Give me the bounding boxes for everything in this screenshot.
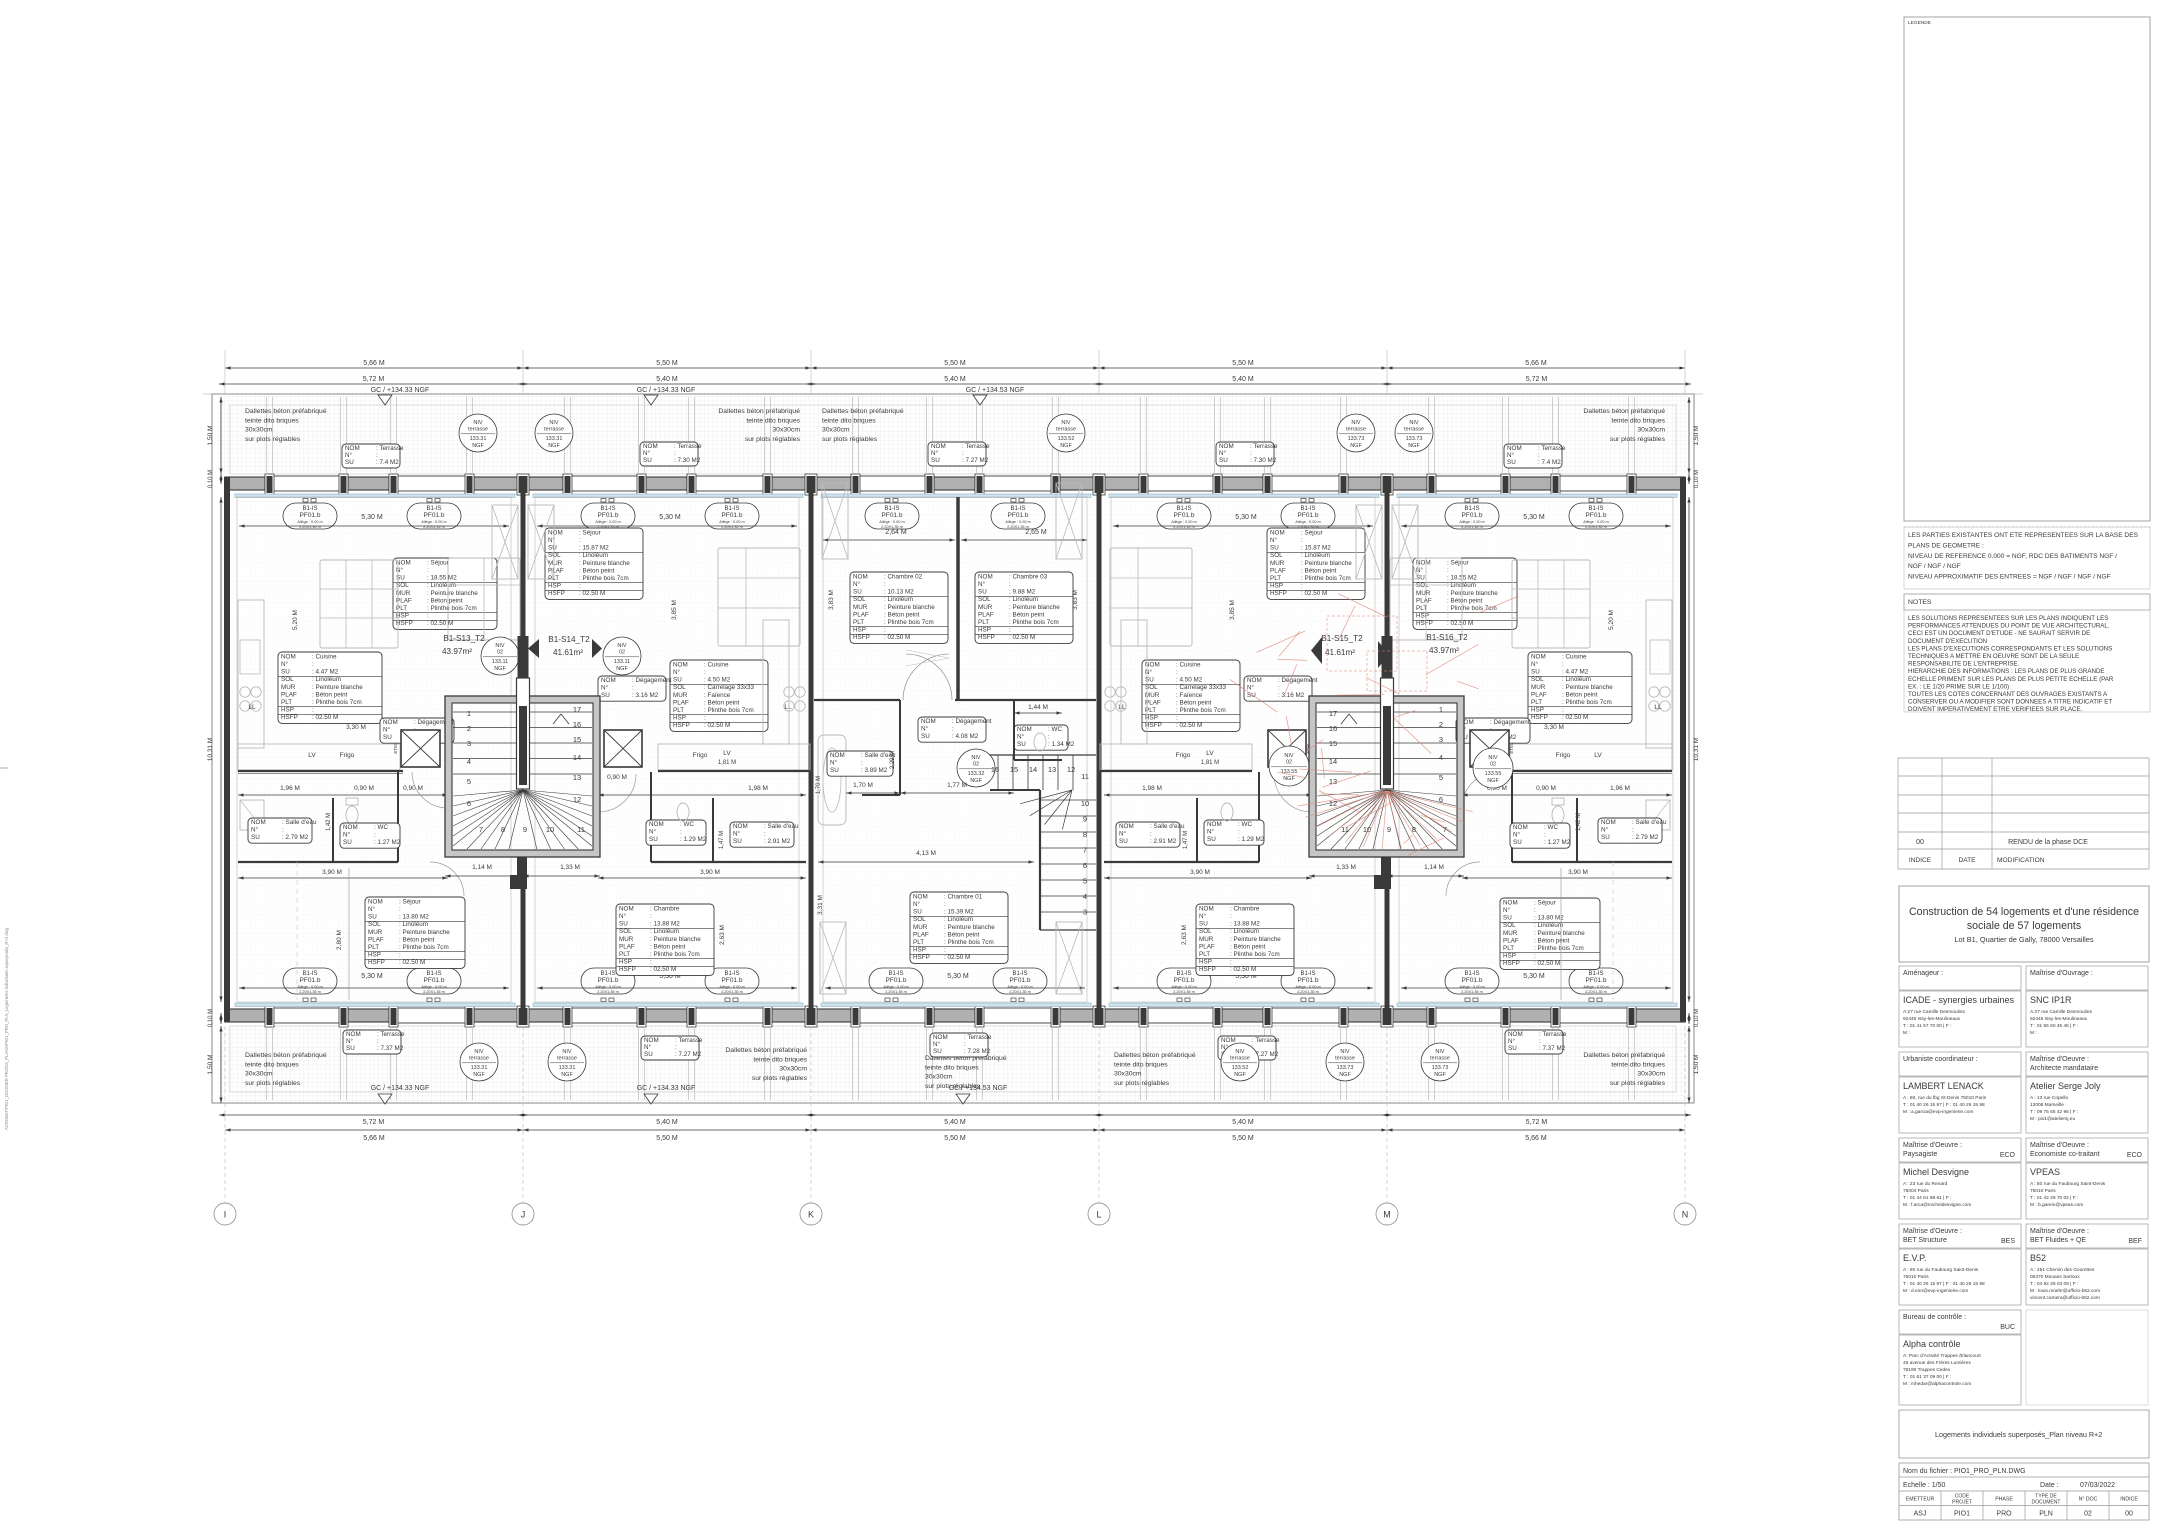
svg-text:NOM: NOM — [383, 719, 398, 726]
svg-text::: : — [1534, 907, 1536, 914]
svg-text:T : 01 41 57 70 00 | F :: T : 01 41 57 70 00 | F : — [1903, 1023, 1951, 1029]
svg-text:M : d.eon@evp-ingenierie.com: M : d.eon@evp-ingenierie.com — [1903, 1288, 1968, 1294]
svg-text:PLN: PLN — [2039, 1511, 2053, 1518]
svg-text:1,50 M: 1,50 M — [1693, 1055, 1700, 1075]
svg-text:Allège : 0.00 m: Allège : 0.00 m — [1459, 520, 1484, 524]
svg-text:PLAF: PLAF — [619, 943, 635, 950]
svg-text:M :: M : — [1903, 1030, 1910, 1036]
svg-text:SOL: SOL — [368, 921, 381, 928]
svg-text:HSFP: HSFP — [1416, 620, 1433, 627]
svg-text:T : 04 92 28 03 09 | F :: T : 04 92 28 03 09 | F : — [2030, 1281, 2078, 1287]
svg-text:MUR: MUR — [853, 604, 868, 611]
svg-text:: Plinthe bois 7cm: : Plinthe bois 7cm — [1230, 951, 1280, 958]
svg-text:5,30 M: 5,30 M — [947, 973, 969, 980]
svg-text:MUR: MUR — [978, 604, 993, 611]
svg-text:: Béton peint: : Béton peint — [1009, 611, 1045, 618]
svg-text:: Béton peint: : Béton peint — [650, 943, 686, 950]
svg-text:1,14 M: 1,14 M — [1424, 864, 1444, 871]
svg-text:: Terrasse: : Terrasse — [1250, 443, 1278, 450]
svg-text:: 02.50 M: : 02.50 M — [399, 959, 425, 966]
svg-text:3: 3 — [1439, 735, 1443, 744]
svg-text:B1-S13_T2: B1-S13_T2 — [443, 634, 485, 643]
svg-text::: : — [952, 726, 954, 733]
svg-text:3,30 M: 3,30 M — [1544, 724, 1564, 731]
svg-text:5,40 M: 5,40 M — [944, 376, 966, 383]
svg-text:NIV: NIV — [474, 1049, 484, 1055]
svg-text:NGF / NGF / NGF: NGF / NGF / NGF — [1908, 563, 1961, 570]
svg-text:: Chambre 02: : Chambre 02 — [884, 573, 923, 580]
svg-text:SU: SU — [913, 909, 922, 916]
svg-text:: 7.37 M2: : 7.37 M2 — [377, 1045, 404, 1052]
svg-text:10: 10 — [1081, 799, 1089, 808]
svg-text::: : — [944, 947, 946, 954]
svg-text:T : 01 44 61 98 61 | F :: T : 01 44 61 98 61 | F : — [1903, 1195, 1951, 1201]
svg-text:Date :: Date : — [2040, 1482, 2059, 1489]
svg-text:NOM: NOM — [1503, 899, 1518, 906]
svg-text:Maîtrise d'Ouvrage :: Maîtrise d'Ouvrage : — [2030, 970, 2093, 977]
svg-text:92445 Issy-les-Moulineaux: 92445 Issy-les-Moulineaux — [1903, 1016, 1961, 1022]
svg-text:MUR: MUR — [913, 924, 928, 931]
svg-text:SU: SU — [346, 1045, 355, 1052]
svg-text:HSFP: HSFP — [619, 966, 636, 973]
svg-text::: : — [1230, 959, 1232, 966]
svg-text::: : — [312, 661, 314, 668]
svg-text:B1-S16_T2: B1-S16_T2 — [1426, 633, 1468, 642]
svg-text:: 15.39 M2: : 15.39 M2 — [944, 909, 974, 916]
svg-text:: Dégagement: : Dégagement — [1490, 719, 1530, 726]
svg-text:: WC: : WC — [1048, 726, 1062, 733]
svg-text:1,70 M: 1,70 M — [816, 776, 822, 794]
svg-text:ASJ: ASJ — [1914, 1511, 1927, 1518]
svg-text:5,20 M: 5,20 M — [292, 610, 299, 630]
svg-text:PLT: PLT — [913, 939, 924, 946]
svg-text:: Carrelage 33x33: : Carrelage 33x33 — [704, 684, 755, 691]
svg-text:SOL: SOL — [1503, 922, 1516, 929]
svg-text:SOL: SOL — [1416, 582, 1429, 589]
svg-text:: Plinthe bois 7cm: : Plinthe bois 7cm — [399, 944, 449, 951]
svg-text:5,40 M: 5,40 M — [656, 1119, 678, 1126]
svg-text:Urbaniste coordinateur :: Urbaniste coordinateur : — [1903, 1056, 1978, 1063]
svg-text:5,30 M: 5,30 M — [1235, 514, 1257, 521]
svg-text:2,20X1,35 m: 2,20X1,35 m — [299, 990, 321, 994]
svg-text:N°: N° — [251, 826, 259, 834]
svg-text:PLT: PLT — [368, 944, 379, 951]
svg-text:HSFP: HSFP — [1531, 714, 1548, 721]
svg-text:3,90 M: 3,90 M — [700, 869, 720, 876]
svg-text:HSFP: HSFP — [978, 634, 995, 641]
svg-text:SU: SU — [1531, 669, 1540, 676]
svg-text:: Linoléum: : Linoléum — [427, 582, 456, 589]
svg-text:terrasse: terrasse — [1230, 1056, 1250, 1062]
svg-text:HSFP: HSFP — [396, 620, 413, 627]
svg-text:PLAF: PLAF — [853, 611, 869, 618]
svg-text:PLT: PLT — [673, 707, 684, 714]
svg-text:PHASE: PHASE — [1995, 1497, 2013, 1503]
svg-text:15: 15 — [1010, 765, 1018, 774]
svg-text:1,96 M: 1,96 M — [1610, 785, 1630, 792]
svg-text:5: 5 — [467, 777, 471, 786]
svg-text::: : — [1538, 452, 1540, 459]
svg-text:N°: N° — [649, 828, 657, 836]
svg-text:3,31 M: 3,31 M — [817, 895, 824, 915]
svg-text:MUR: MUR — [1416, 590, 1431, 597]
svg-text:NOM: NOM — [1199, 905, 1214, 912]
svg-text:SU: SU — [1247, 692, 1256, 699]
svg-text:J: J — [521, 1210, 526, 1220]
svg-text:A:27 rue Camille Desmoulins: A:27 rue Camille Desmoulins — [2030, 1009, 2092, 1015]
svg-text:: 02.50 M: : 02.50 M — [427, 620, 453, 627]
svg-text:LV: LV — [723, 750, 731, 757]
svg-text:: Terrasse: : Terrasse — [377, 1031, 405, 1038]
svg-text:B1-S15_T2: B1-S15_T2 — [1321, 634, 1363, 643]
svg-text:NOTES: NOTES — [1908, 599, 1932, 606]
svg-text:133.52: 133.52 — [1232, 1065, 1249, 1071]
svg-text:133.73: 133.73 — [1432, 1065, 1449, 1071]
svg-text:Maîtrise d'Oeuvre :: Maîtrise d'Oeuvre : — [2030, 1228, 2089, 1235]
svg-text:HSP: HSP — [978, 627, 991, 634]
svg-text:NGF: NGF — [1283, 776, 1295, 782]
svg-text:teinte dito briques: teinte dito briques — [1611, 417, 1665, 424]
svg-text:17: 17 — [1329, 709, 1337, 718]
svg-text:PF01.b: PF01.b — [1586, 512, 1607, 519]
svg-text:RENDU de la phase DCE: RENDU de la phase DCE — [2008, 839, 2088, 846]
svg-text:GC / +134.33 NGF: GC / +134.33 NGF — [371, 1085, 430, 1092]
svg-text:: Carrelage 33x33: : Carrelage 33x33 — [1176, 684, 1227, 691]
svg-text:6: 6 — [467, 799, 471, 808]
svg-text:NOM: NOM — [346, 1031, 361, 1038]
svg-text:HSFP: HSFP — [1199, 966, 1216, 973]
svg-text:N°: N° — [383, 726, 391, 734]
svg-text:: Séjour: : Séjour — [399, 898, 421, 905]
svg-text:3,83 M: 3,83 M — [828, 590, 835, 610]
svg-text:NGF: NGF — [616, 666, 628, 672]
svg-text:NOM: NOM — [281, 653, 296, 660]
svg-text:1,44 M: 1,44 M — [1028, 704, 1048, 711]
svg-text:133.32: 133.32 — [968, 771, 985, 777]
svg-text:NGF: NGF — [970, 778, 982, 784]
svg-text:NGF: NGF — [1408, 443, 1420, 449]
svg-text:N°: N° — [343, 831, 351, 839]
svg-text:PF01.b: PF01.b — [1010, 977, 1031, 984]
svg-text:: 7.30 M2: : 7.30 M2 — [1250, 457, 1277, 464]
svg-text:: Dégagement: : Dégagement — [1278, 677, 1318, 684]
svg-text:NIV: NIV — [495, 643, 505, 649]
svg-text::: : — [704, 715, 706, 722]
svg-text::: : — [1278, 685, 1280, 692]
svg-text:: Béton peint: : Béton peint — [1562, 691, 1598, 698]
svg-text::: : — [1176, 669, 1178, 676]
svg-text:INDICE: INDICE — [1909, 857, 1932, 864]
svg-text:: Cuisine: : Cuisine — [704, 661, 729, 668]
svg-text:17: 17 — [573, 705, 581, 714]
svg-text::: : — [632, 685, 634, 692]
svg-text:LV: LV — [308, 752, 316, 759]
svg-text:NOM: NOM — [1119, 823, 1134, 830]
svg-text:SU: SU — [673, 677, 682, 684]
svg-text:9: 9 — [1387, 825, 1391, 834]
svg-text:: 7.37 M2: : 7.37 M2 — [1539, 1045, 1566, 1052]
svg-text:SU: SU — [1513, 839, 1522, 846]
svg-text:PLAF: PLAF — [1416, 597, 1432, 604]
svg-text:MUR: MUR — [1270, 560, 1285, 567]
svg-text:CONSERVER OU A MODIFIER SONT D: CONSERVER OU A MODIFIER SONT DONNEES A T… — [1908, 699, 2112, 706]
svg-text:terrasse: terrasse — [557, 1056, 577, 1062]
svg-text:NIV: NIV — [1235, 1049, 1245, 1055]
svg-text:: Chambre 03: : Chambre 03 — [1009, 573, 1048, 580]
svg-text:0,10 M: 0,10 M — [208, 470, 214, 488]
svg-text:NOM: NOM — [619, 905, 634, 912]
svg-text:LES PLANS D'EXECUTIONS CORRESP: LES PLANS D'EXECUTIONS CORRESPONDANTS ET… — [1908, 645, 2112, 652]
svg-text::: : — [1009, 581, 1011, 588]
svg-text:N°: N° — [619, 912, 627, 920]
svg-text:N°: N° — [1503, 906, 1511, 914]
svg-text:B1-S14_T2: B1-S14_T2 — [548, 635, 590, 644]
svg-text:LV: LV — [1594, 752, 1602, 759]
svg-text::: : — [962, 450, 964, 457]
svg-text:A:27 rue Camille Desmoulins: A:27 rue Camille Desmoulins — [1903, 1009, 1965, 1015]
svg-text:: Linoléum: : Linoléum — [1009, 596, 1038, 603]
svg-text:30x30cm: 30x30cm — [772, 427, 800, 434]
svg-text:Atelier Serge Joly: Atelier Serge Joly — [2030, 1081, 2101, 1091]
svg-text:LEGENDE: LEGENDE — [1908, 20, 1931, 26]
svg-text:Echelle : 1/50: Echelle : 1/50 — [1903, 1482, 1946, 1489]
svg-text:PLT: PLT — [1531, 699, 1542, 706]
svg-text:11: 11 — [577, 825, 585, 834]
svg-text:SU: SU — [1017, 741, 1026, 748]
svg-text:: 02.50 M: : 02.50 M — [1176, 722, 1202, 729]
svg-text:HSFP: HSFP — [368, 959, 385, 966]
svg-text:SU: SU — [931, 457, 940, 464]
svg-text:N°: N° — [1508, 1037, 1516, 1045]
svg-text:: Peinture blanche: : Peinture blanche — [1534, 930, 1585, 937]
svg-text:10: 10 — [1363, 825, 1371, 834]
svg-text:: Peinture blanche: : Peinture blanche — [884, 604, 935, 611]
svg-text:: Plinthe bois 7cm: : Plinthe bois 7cm — [944, 939, 994, 946]
svg-text::: : — [374, 832, 376, 839]
svg-text:02: 02 — [1490, 762, 1496, 768]
svg-text:Allège : 0.00 m: Allège : 0.00 m — [719, 985, 744, 989]
svg-text:NGF: NGF — [494, 666, 506, 672]
svg-text:: Terrasse: : Terrasse — [962, 443, 990, 450]
svg-text::: : — [1562, 707, 1564, 714]
svg-text:TOUTES LES COTES CONCERNANT DE: TOUTES LES COTES CONCERNANT DES OUVRAGES… — [1908, 691, 2108, 698]
svg-text:NOM: NOM — [913, 893, 928, 900]
svg-text::: : — [944, 901, 946, 908]
svg-text:: 02.50 M: : 02.50 M — [579, 590, 605, 597]
svg-text:NOM: NOM — [644, 1037, 659, 1044]
svg-text:133.73: 133.73 — [1406, 436, 1423, 442]
svg-text:: 02.50 M: : 02.50 M — [1534, 960, 1560, 967]
svg-text:PF01.b: PF01.b — [300, 977, 321, 984]
svg-text:SU: SU — [396, 575, 405, 582]
svg-text:PLAF: PLAF — [673, 699, 689, 706]
svg-text:PLT: PLT — [281, 699, 292, 706]
svg-text:4,13 M: 4,13 M — [916, 850, 936, 857]
svg-text:Allège : 0.00 m: Allège : 0.00 m — [1171, 520, 1196, 524]
svg-text:A: Parc d'Activité Trappes /El: A: Parc d'Activité Trappes /Elancourt — [1903, 1353, 1981, 1359]
svg-text:N°: N° — [1017, 733, 1025, 741]
svg-text:5,50 M: 5,50 M — [944, 1135, 966, 1142]
svg-text::: : — [1632, 827, 1634, 834]
svg-text:3,30 M: 3,30 M — [346, 724, 366, 731]
svg-text:3: 3 — [467, 739, 471, 748]
svg-text:: 4.47 M2: : 4.47 M2 — [1562, 669, 1589, 676]
svg-text:SU: SU — [733, 838, 742, 845]
svg-text:N°: N° — [1531, 660, 1539, 668]
svg-text:NGF: NGF — [561, 1072, 573, 1078]
svg-text::: : — [1230, 913, 1232, 920]
svg-text:13: 13 — [573, 773, 581, 782]
svg-text:SU: SU — [1503, 915, 1512, 922]
svg-text:NOM: NOM — [251, 819, 266, 826]
svg-text:T : 01 40 26 15 97 | F : 01: T : 01 40 26 15 97 | F : 01 40 26 15 98 — [1903, 1102, 1985, 1108]
svg-text:SOL: SOL — [548, 552, 561, 559]
svg-text:SOL: SOL — [978, 596, 991, 603]
svg-text:30x30cm: 30x30cm — [245, 427, 273, 434]
svg-text:NOM: NOM — [733, 823, 748, 830]
svg-text::: : — [579, 583, 581, 590]
svg-text:2,20X1,35 m: 2,20X1,35 m — [1297, 990, 1319, 994]
svg-text:SU: SU — [343, 839, 352, 846]
svg-text:ETEL: ETEL — [393, 742, 398, 754]
svg-text:: Peinture blanche: : Peinture blanche — [1447, 590, 1498, 597]
svg-text:PLT: PLT — [1503, 945, 1514, 952]
svg-text:: Béton peint: : Béton peint — [399, 936, 435, 943]
svg-text:: Peinture blanche: : Peinture blanche — [312, 684, 363, 691]
svg-text:13008 Marseille: 13008 Marseille — [2030, 1102, 2064, 1108]
svg-text:sociale de 57 logements: sociale de 57 logements — [1967, 920, 2081, 932]
svg-text:5,50 M: 5,50 M — [1232, 360, 1254, 367]
svg-text:: 4.47 M2: : 4.47 M2 — [312, 669, 339, 676]
svg-text:PF01.b: PF01.b — [424, 512, 445, 519]
svg-text:PF01.b: PF01.b — [1008, 512, 1029, 519]
svg-text:Allège : 0.00 m: Allège : 0.00 m — [1295, 520, 1320, 524]
svg-text:DOCUMENT: DOCUMENT — [2032, 1500, 2061, 1506]
svg-text:Michel Desvigne: Michel Desvigne — [1903, 1167, 1969, 1177]
svg-text:PLAF: PLAF — [1199, 943, 1215, 950]
svg-text:CECI EST UN DOCUMENT D'ETUDE -: CECI EST UN DOCUMENT D'ETUDE - NE SAURAI… — [1908, 630, 2090, 637]
svg-text:1,81 M: 1,81 M — [1201, 760, 1219, 766]
svg-text:75010 Paris: 75010 Paris — [1903, 1274, 1929, 1280]
svg-text:HSP: HSP — [619, 959, 632, 966]
svg-text:1,33 M: 1,33 M — [560, 864, 580, 871]
svg-text::: : — [1048, 734, 1050, 741]
svg-text:LAMBERT LENACK: LAMBERT LENACK — [1903, 1081, 1984, 1091]
svg-text:4: 4 — [1083, 892, 1087, 901]
svg-text:T : 01 61 37 09 00 | F :: T : 01 61 37 09 00 | F : — [1903, 1374, 1951, 1380]
svg-text:: 3.16 M2: : 3.16 M2 — [632, 692, 659, 699]
svg-text:PLAF: PLAF — [913, 931, 929, 938]
svg-text:teinte dito briques: teinte dito briques — [822, 417, 876, 424]
svg-text:: Linoléum: : Linoléum — [1562, 676, 1591, 683]
svg-text:PLAF: PLAF — [1270, 567, 1286, 574]
svg-text:EMETTEUR: EMETTEUR — [1906, 1497, 1935, 1503]
svg-text:MUR: MUR — [548, 560, 563, 567]
svg-text:N°: N° — [1507, 451, 1515, 459]
svg-text:6: 6 — [1439, 795, 1443, 804]
svg-text:NIV: NIV — [617, 643, 627, 649]
svg-text:SU: SU — [601, 692, 610, 699]
svg-text:15: 15 — [1329, 739, 1337, 748]
svg-text:teinte dito briques: teinte dito briques — [925, 1064, 979, 1071]
svg-text:sur plots réglables: sur plots réglables — [1610, 1080, 1666, 1087]
svg-text:DATE: DATE — [1958, 857, 1976, 864]
svg-text:N°: N° — [346, 1037, 354, 1045]
svg-text:Construction de 54 logements e: Construction de 54 logements et d'une ré… — [1909, 906, 2139, 918]
svg-text:16: 16 — [991, 765, 999, 774]
svg-text:4: 4 — [467, 757, 471, 766]
svg-text::: : — [1150, 831, 1152, 838]
svg-text:: Béton peint: : Béton peint — [1301, 567, 1337, 574]
svg-text:HSFP: HSFP — [281, 714, 298, 721]
svg-text:Allège : 0.00 m: Allège : 0.00 m — [595, 985, 620, 989]
svg-text:PF01.b: PF01.b — [722, 977, 743, 984]
svg-text:: Peinture blanche: : Peinture blanche — [579, 560, 630, 567]
svg-text:N°: N° — [978, 580, 986, 588]
svg-text:HSFP: HSFP — [853, 634, 870, 641]
svg-text:teinte dito briques: teinte dito briques — [753, 1056, 807, 1063]
svg-text:BUC: BUC — [2000, 1324, 2015, 1331]
svg-text:Allège : 0.00 m: Allège : 0.00 m — [595, 520, 620, 524]
svg-text:NIV: NIV — [1061, 420, 1071, 426]
svg-text:0,90 M: 0,90 M — [1536, 785, 1556, 792]
svg-text:: Séjour: : Séjour — [427, 559, 449, 566]
svg-text:1,42 M: 1,42 M — [326, 813, 332, 831]
svg-text:: Séjour: : Séjour — [1301, 529, 1323, 536]
svg-text:N°: N° — [1416, 566, 1424, 574]
svg-text:: 3.89 M2: : 3.89 M2 — [861, 767, 888, 774]
svg-text:NOM: NOM — [1219, 443, 1234, 450]
svg-text:NIV: NIV — [1488, 755, 1498, 761]
svg-text:2,65 M: 2,65 M — [1025, 529, 1047, 536]
svg-text:teinte dito briques: teinte dito briques — [746, 417, 800, 424]
svg-text:sur plots réglables: sur plots réglables — [822, 436, 878, 443]
svg-text::: : — [312, 707, 314, 714]
svg-text:: Peinture blanche: : Peinture blanche — [427, 590, 478, 597]
svg-text:7: 7 — [479, 825, 483, 834]
svg-text:Economiste co-traitant: Economiste co-traitant — [2030, 1151, 2100, 1158]
svg-text:HSFP: HSFP — [913, 954, 930, 961]
svg-text:: Béton peint: : Béton peint — [312, 691, 348, 698]
svg-text:: Béton peint: : Béton peint — [1534, 937, 1570, 944]
svg-text:PLAF: PLAF — [978, 611, 994, 618]
svg-text:SU: SU — [251, 834, 260, 841]
svg-text:NGF: NGF — [1060, 443, 1072, 449]
svg-text:A : 80 rue du Faubourg Saint-D: A : 80 rue du Faubourg Saint-Denis — [1903, 1267, 1979, 1273]
svg-text::: : — [376, 452, 378, 459]
svg-text:2,29 M: 2,29 M — [890, 751, 896, 769]
svg-text:NOM: NOM — [1531, 653, 1546, 660]
svg-text:N°: N° — [933, 1040, 941, 1048]
svg-text:Nom du fichier : PIO1_PRO_PLN.: Nom du fichier : PIO1_PRO_PLN.DWG — [1903, 1468, 2026, 1475]
svg-text:: 1.29 M2: : 1.29 M2 — [680, 836, 707, 843]
svg-text:HIERARCHIE DES INFORMATIONS :: HIERARCHIE DES INFORMATIONS : LES PLANS … — [1908, 668, 2105, 675]
svg-text:sur plots réglables: sur plots réglables — [1114, 1080, 1170, 1087]
svg-text:terrasse: terrasse — [1346, 427, 1366, 433]
svg-text:PLAF: PLAF — [281, 691, 297, 698]
svg-text:Allège : 0.00 m: Allège : 0.00 m — [1005, 520, 1030, 524]
svg-text::: : — [884, 581, 886, 588]
svg-text:LV: LV — [1206, 750, 1214, 757]
svg-text:PF01.b: PF01.b — [598, 512, 619, 519]
svg-text:: Béton peint: : Béton peint — [579, 567, 615, 574]
svg-text:: Plinthe bois 7cm: : Plinthe bois 7cm — [312, 699, 362, 706]
svg-text:teinte dito briques: teinte dito briques — [1611, 1061, 1665, 1068]
svg-text:MUR: MUR — [368, 929, 383, 936]
svg-text:NIV: NIV — [562, 1049, 572, 1055]
svg-text:: Salle d'eau: : Salle d'eau — [1150, 823, 1185, 830]
svg-text:Allège : 0.00 m: Allège : 0.00 m — [1007, 985, 1032, 989]
